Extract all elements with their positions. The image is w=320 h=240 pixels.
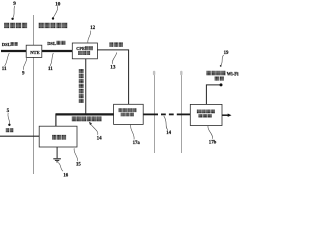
wire: DSL line left thick segment bbox=[1, 50, 26, 52]
leader from 9 to NTE box bbox=[23, 58, 26, 70]
CPE modem box bbox=[72, 43, 97, 59]
ground symbol below filter bbox=[53, 147, 61, 162]
wire: mains grid line into filter bbox=[0, 135, 39, 137]
leader from 15 to filter box corner bbox=[74, 148, 77, 161]
svg-text:15: 15 bbox=[76, 162, 81, 167]
svg-text:14: 14 bbox=[97, 137, 103, 142]
leader from 17a to box bbox=[131, 125, 135, 140]
vertical boundary line (left of adapter 17b region) bbox=[154, 73, 156, 153]
label: ethernet or Wi-Fi device, line 1 (4 CJK blobs + Wi-Fi) bbox=[206, 71, 239, 78]
leader from 13 to ethernet line bbox=[112, 52, 117, 64]
svg-text:17a: 17a bbox=[133, 141, 141, 146]
leader from second 14 to dashed line bbox=[164, 116, 168, 130]
label: DSL line (right) bbox=[47, 41, 65, 46]
label: access network (4 CJK glyph blobs) bbox=[4, 23, 27, 29]
leader from 11 left to DSL line bbox=[5, 53, 10, 66]
wire: mains dash 2 bbox=[169, 113, 174, 115]
svg-text:DSL: DSL bbox=[47, 41, 56, 46]
label: home network (5 CJK glyph blobs) bbox=[39, 23, 68, 29]
leader from 17b to box bbox=[208, 126, 213, 139]
leader from 12 to CPE box bbox=[88, 31, 91, 43]
node: device connection dot bbox=[220, 83, 223, 86]
svg-text:11: 11 bbox=[2, 67, 7, 72]
leader from 10 to home-network label bbox=[53, 6, 57, 17]
wire: mains between dashes and 17b bbox=[177, 113, 191, 115]
label: grid (2 CJK glyph blobs) bbox=[6, 128, 14, 132]
label: vertical text along CPE power cord (7 CJK glyph blobs) bbox=[79, 69, 84, 103]
leader from 11 right to DSL line bbox=[50, 53, 53, 66]
svg-text:Wi-Fi: Wi-Fi bbox=[227, 72, 240, 77]
filter box bbox=[39, 126, 77, 147]
wire: mains dash 1 bbox=[161, 113, 166, 115]
svg-text:11: 11 bbox=[48, 67, 53, 72]
label: DSL line (left) bbox=[2, 42, 18, 47]
wire: mains between 17a and dashes bbox=[143, 113, 158, 115]
wire: CPE power cord down to home mains bbox=[85, 59, 87, 114]
wire: ethernet from CPE to adapter 17a bbox=[97, 50, 128, 104]
powerline adapter 17a box bbox=[114, 104, 144, 124]
boundary separator line between access network and home network bbox=[33, 15, 35, 174]
svg-text:NTE: NTE bbox=[30, 50, 39, 55]
svg-text:17b: 17b bbox=[209, 140, 217, 145]
vertical boundary line (right of dashes) bbox=[181, 73, 183, 153]
label: home mains network (6 CJK glyph blobs) bbox=[72, 117, 102, 122]
leader from 19 to device label bbox=[221, 55, 224, 65]
svg-text:19: 19 bbox=[224, 51, 229, 56]
svg-text:16: 16 bbox=[63, 173, 68, 177]
wire: mains drop to filter box bbox=[55, 114, 57, 127]
NTE box bbox=[26, 45, 42, 57]
svg-text:13: 13 bbox=[110, 65, 116, 71]
svg-text:12: 12 bbox=[90, 26, 96, 31]
svg-text:DSL: DSL bbox=[2, 42, 11, 47]
svg-text:CPE: CPE bbox=[76, 46, 85, 51]
svg-text:10: 10 bbox=[55, 1, 61, 7]
leader from 14 to mains label with arrowhead bbox=[90, 123, 98, 134]
wire: DSL line right thick segment bbox=[42, 50, 73, 52]
label: device, line 2 (2 CJK blobs) bbox=[215, 76, 224, 80]
svg-text:14: 14 bbox=[166, 131, 171, 136]
leader from 9 to access-network label bbox=[13, 6, 15, 18]
leader from 5 to grid line bbox=[8, 113, 10, 124]
wire: 17b up to ethernet/wifi device dot bbox=[206, 85, 220, 105]
wire: mains output arrow right of 17b bbox=[222, 114, 228, 116]
wire: home mains thick line (left of 17a) bbox=[56, 113, 114, 115]
label: ethernet (3 CJK glyph blobs) bbox=[109, 42, 123, 47]
powerline adapter 17b box bbox=[190, 104, 222, 125]
leader from 16 to ground bbox=[58, 163, 63, 172]
